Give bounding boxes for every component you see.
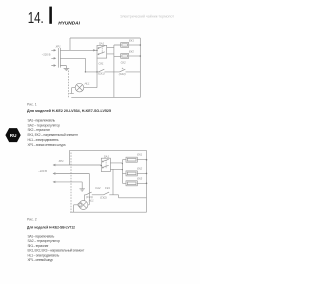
svg-text:СК2: СК2 — [121, 60, 127, 64]
svg-text:ЕК2: ЕК2 — [129, 50, 134, 54]
svg-text:EK1, EK2 – нагревательный элем: EK1, EK2 – нагревательный элемент — [28, 133, 79, 137]
svg-text:Рис. 2: Рис. 2 — [27, 218, 37, 222]
svg-text:RU: RU — [10, 133, 17, 138]
svg-text:Электрический чайник-термопот: Электрический чайник-термопот — [120, 15, 174, 19]
svg-text:Рис. 1: Рис. 1 — [27, 103, 37, 107]
svg-text:14.: 14. — [28, 10, 44, 27]
svg-text:XP1 – вилка сетевого шнура: XP1 – вилка сетевого шнура — [28, 143, 66, 147]
svg-text:SA2 – терморегулятор: SA2 – терморегулятор — [28, 239, 61, 243]
svg-text:~220 В: ~220 В — [38, 169, 47, 173]
svg-text:SA2 – терморегулятор: SA2 – терморегулятор — [28, 123, 61, 127]
svg-text:Для моделей H-KE2 20-LV534, H-: Для моделей H-KE2 20-LV534, H-KE7-SO-LV5… — [27, 109, 111, 113]
svg-text:SA1: SA1 — [104, 155, 110, 159]
svg-text:HL1 – электродвигатель: HL1 – электродвигатель — [28, 138, 59, 142]
svg-text:SK2 – термостат: SK2 – термостат — [28, 128, 51, 132]
svg-text:HL1: HL1 — [89, 198, 94, 202]
svg-text:HL1: HL1 — [85, 82, 90, 86]
svg-text:ХР1: ХР1 — [58, 159, 65, 163]
svg-text:ЕК3: ЕК3 — [137, 176, 142, 180]
svg-text:SA1 – переключатель: SA1 – переключатель — [28, 234, 55, 238]
svg-text:~220 В: ~220 В — [42, 52, 51, 56]
svg-text:HL1 – электродвигатель: HL1 – электродвигатель — [28, 253, 60, 257]
svg-text:ХР1: ХР1 — [55, 44, 62, 48]
svg-text:СА2: СА2 — [95, 186, 101, 190]
svg-text:SA1 – переключатель: SA1 – переключатель — [28, 118, 56, 122]
svg-text:ЕК2: ЕК2 — [137, 167, 142, 171]
svg-text:(СК2): (СК2) — [119, 72, 126, 76]
svg-text:(СК1): (СК1) — [98, 72, 105, 76]
svg-text:SA1: SA1 — [99, 41, 105, 45]
svg-text:EK1, EK2, EK3 – нагревательный: EK1, EK2, EK3 – нагревательный элемент — [28, 249, 85, 253]
svg-text:XP1 – сетевой шнур: XP1 – сетевой шнур — [28, 258, 54, 262]
svg-text:ЕК1: ЕК1 — [129, 39, 134, 43]
svg-text:Для моделей H-KE2-SB-LV712: Для моделей H-KE2-SB-LV712 — [27, 226, 75, 230]
svg-text:(СК2): (СК2) — [100, 196, 107, 200]
svg-text:ЕК1: ЕК1 — [137, 153, 142, 157]
svg-text:СК1: СК1 — [105, 186, 111, 190]
svg-text:СК1: СК1 — [99, 61, 105, 65]
svg-text:HYUNDAI: HYUNDAI — [58, 21, 80, 26]
svg-text:SK1 – термостат: SK1 – термостат — [28, 244, 49, 248]
